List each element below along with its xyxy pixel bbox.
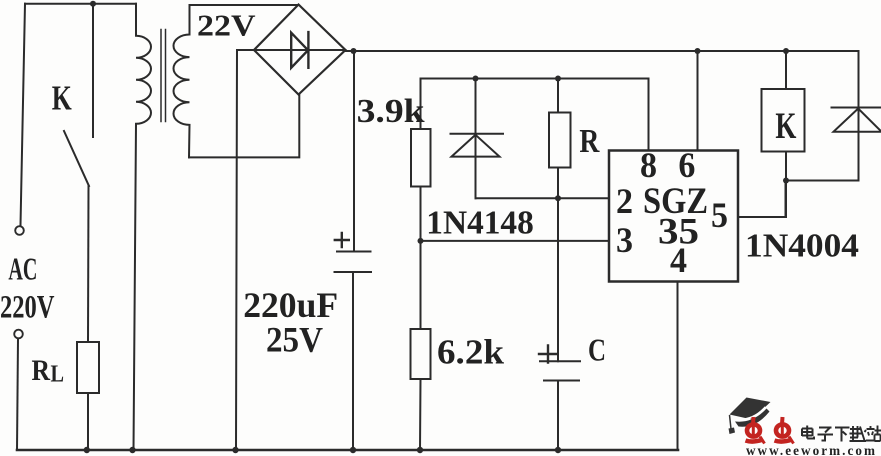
wire C1 top lead xyxy=(353,51,355,252)
wire switch lower lead xyxy=(87,186,90,342)
junction dot gnd-C1 xyxy=(350,447,356,453)
watermark white stripe on cap xyxy=(736,407,766,420)
resistor R2 R xyxy=(549,113,571,168)
wire 3.9k upper lead xyxy=(420,79,422,130)
node AC terminal bottom xyxy=(14,330,23,339)
junction dot relay net xyxy=(783,178,789,184)
svg-text:C: C xyxy=(588,332,606,368)
svg-text:220V: 220V xyxy=(0,290,55,326)
watermark chongchong char2 xyxy=(775,417,794,444)
resistor R1 3.9k xyxy=(411,129,431,187)
wire secondary top to bridge xyxy=(190,4,299,6)
C1 polarity plus xyxy=(335,233,349,247)
resistor RL xyxy=(77,342,99,393)
svg-text:R: R xyxy=(32,354,51,387)
wire RL lower lead xyxy=(87,393,89,450)
svg-text:6: 6 xyxy=(678,145,695,185)
wire bottom ground rail xyxy=(17,449,678,452)
wire C2 bottom lead xyxy=(557,381,559,451)
bridge rectifier diamond xyxy=(254,5,346,95)
bridge diode xyxy=(291,32,308,68)
junction dot gnd-primary xyxy=(129,447,135,453)
wire main positive rail xyxy=(344,50,859,52)
transformer T1 secondary xyxy=(174,5,190,157)
svg-text:8: 8 xyxy=(640,145,657,185)
watermark text xia xyxy=(835,428,850,442)
svg-text:1N4004: 1N4004 xyxy=(745,227,859,264)
svg-text:2: 2 xyxy=(616,181,633,221)
junction dot gnd-bridge xyxy=(232,447,238,453)
wire secondary bottom xyxy=(189,95,299,158)
svg-text:K: K xyxy=(52,79,72,118)
C2 polarity plus xyxy=(539,346,557,363)
op-amp U1 SGZ35 box xyxy=(609,151,738,282)
wire second rail (3.9k top to pin8) xyxy=(421,78,649,80)
svg-text:22V: 22V xyxy=(197,8,256,43)
switch K blade xyxy=(64,131,89,186)
wire 6.2k lower lead xyxy=(419,379,422,450)
resistor R3 6.2k xyxy=(411,329,431,379)
junction dot rail-pin6 xyxy=(695,48,701,54)
wire bridge left vertex down xyxy=(237,49,255,51)
wire top-left rail xyxy=(25,3,136,5)
wire relay net horizontal xyxy=(786,180,859,182)
transformer T1 primary xyxy=(134,4,152,450)
wire relay K lower lead xyxy=(785,152,787,218)
wire pin3 line xyxy=(421,240,610,242)
watermark chongchong char1 xyxy=(746,417,765,444)
watermark text zi xyxy=(818,428,834,441)
bridge internal bar xyxy=(254,49,346,51)
junction dot pin3-3.9k xyxy=(418,238,424,244)
svg-text:5: 5 xyxy=(711,195,728,235)
wire R lower lead / C2 top xyxy=(557,168,559,362)
wire switch upper lead xyxy=(92,4,94,137)
junction dot rail-C1 xyxy=(351,48,357,54)
svg-text:K: K xyxy=(775,106,796,147)
diode D2 1N4004 xyxy=(832,108,881,132)
watermark graduation cap xyxy=(729,398,771,435)
junction dot gnd-6.2k xyxy=(417,447,423,453)
wire left AC line upper xyxy=(21,4,26,225)
svg-text:6.2k: 6.2k xyxy=(437,333,505,372)
junction dot top-left xyxy=(90,1,96,7)
junction dot gnd-C2 xyxy=(555,447,561,453)
wire pin5 lead xyxy=(738,181,786,218)
watermark text zai xyxy=(850,426,867,441)
transformer core xyxy=(161,30,166,122)
watermark text zhan xyxy=(866,426,881,442)
svg-text:1N4148: 1N4148 xyxy=(426,204,534,241)
wire relay K upper lead xyxy=(785,51,787,89)
svg-text:4: 4 xyxy=(670,240,687,280)
wire 1N4004 through lead xyxy=(858,51,860,181)
svg-text:3: 3 xyxy=(616,220,633,260)
node AC terminal top xyxy=(15,226,24,235)
svg-text:3.9k: 3.9k xyxy=(357,93,425,130)
svg-text:R: R xyxy=(579,123,599,160)
wire C1 bottom lead xyxy=(352,272,354,450)
junction dot pin2-R xyxy=(555,195,561,201)
svg-text:25V: 25V xyxy=(266,320,323,360)
wire 1N4148 lower lead xyxy=(476,197,610,199)
wire 3.9k lower lead xyxy=(420,187,422,330)
relay K coil box xyxy=(762,89,805,152)
junction dot rail-K xyxy=(783,48,789,54)
wire pin8 lead xyxy=(648,79,650,151)
wire R upper lead xyxy=(557,79,559,113)
watermark text dian xyxy=(802,426,814,439)
junction dot rail2-R xyxy=(555,76,561,82)
svg-text:www.eeworm.com: www.eeworm.com xyxy=(746,443,877,456)
junction dot gnd-RL xyxy=(84,447,90,453)
wire pin4 lead xyxy=(677,282,679,451)
svg-text:AC: AC xyxy=(8,250,37,286)
capacitor C2 plates xyxy=(540,361,580,380)
svg-text:L: L xyxy=(51,362,65,388)
wire left AC line lower xyxy=(17,339,18,450)
diode D1 1N4148 xyxy=(451,134,504,157)
wire pin6 lead xyxy=(697,51,699,151)
capacitor C1 220uF plates xyxy=(335,252,372,273)
junction dot rail2-1N4148 xyxy=(473,76,479,82)
wire 1N4148 upper lead xyxy=(475,79,477,199)
